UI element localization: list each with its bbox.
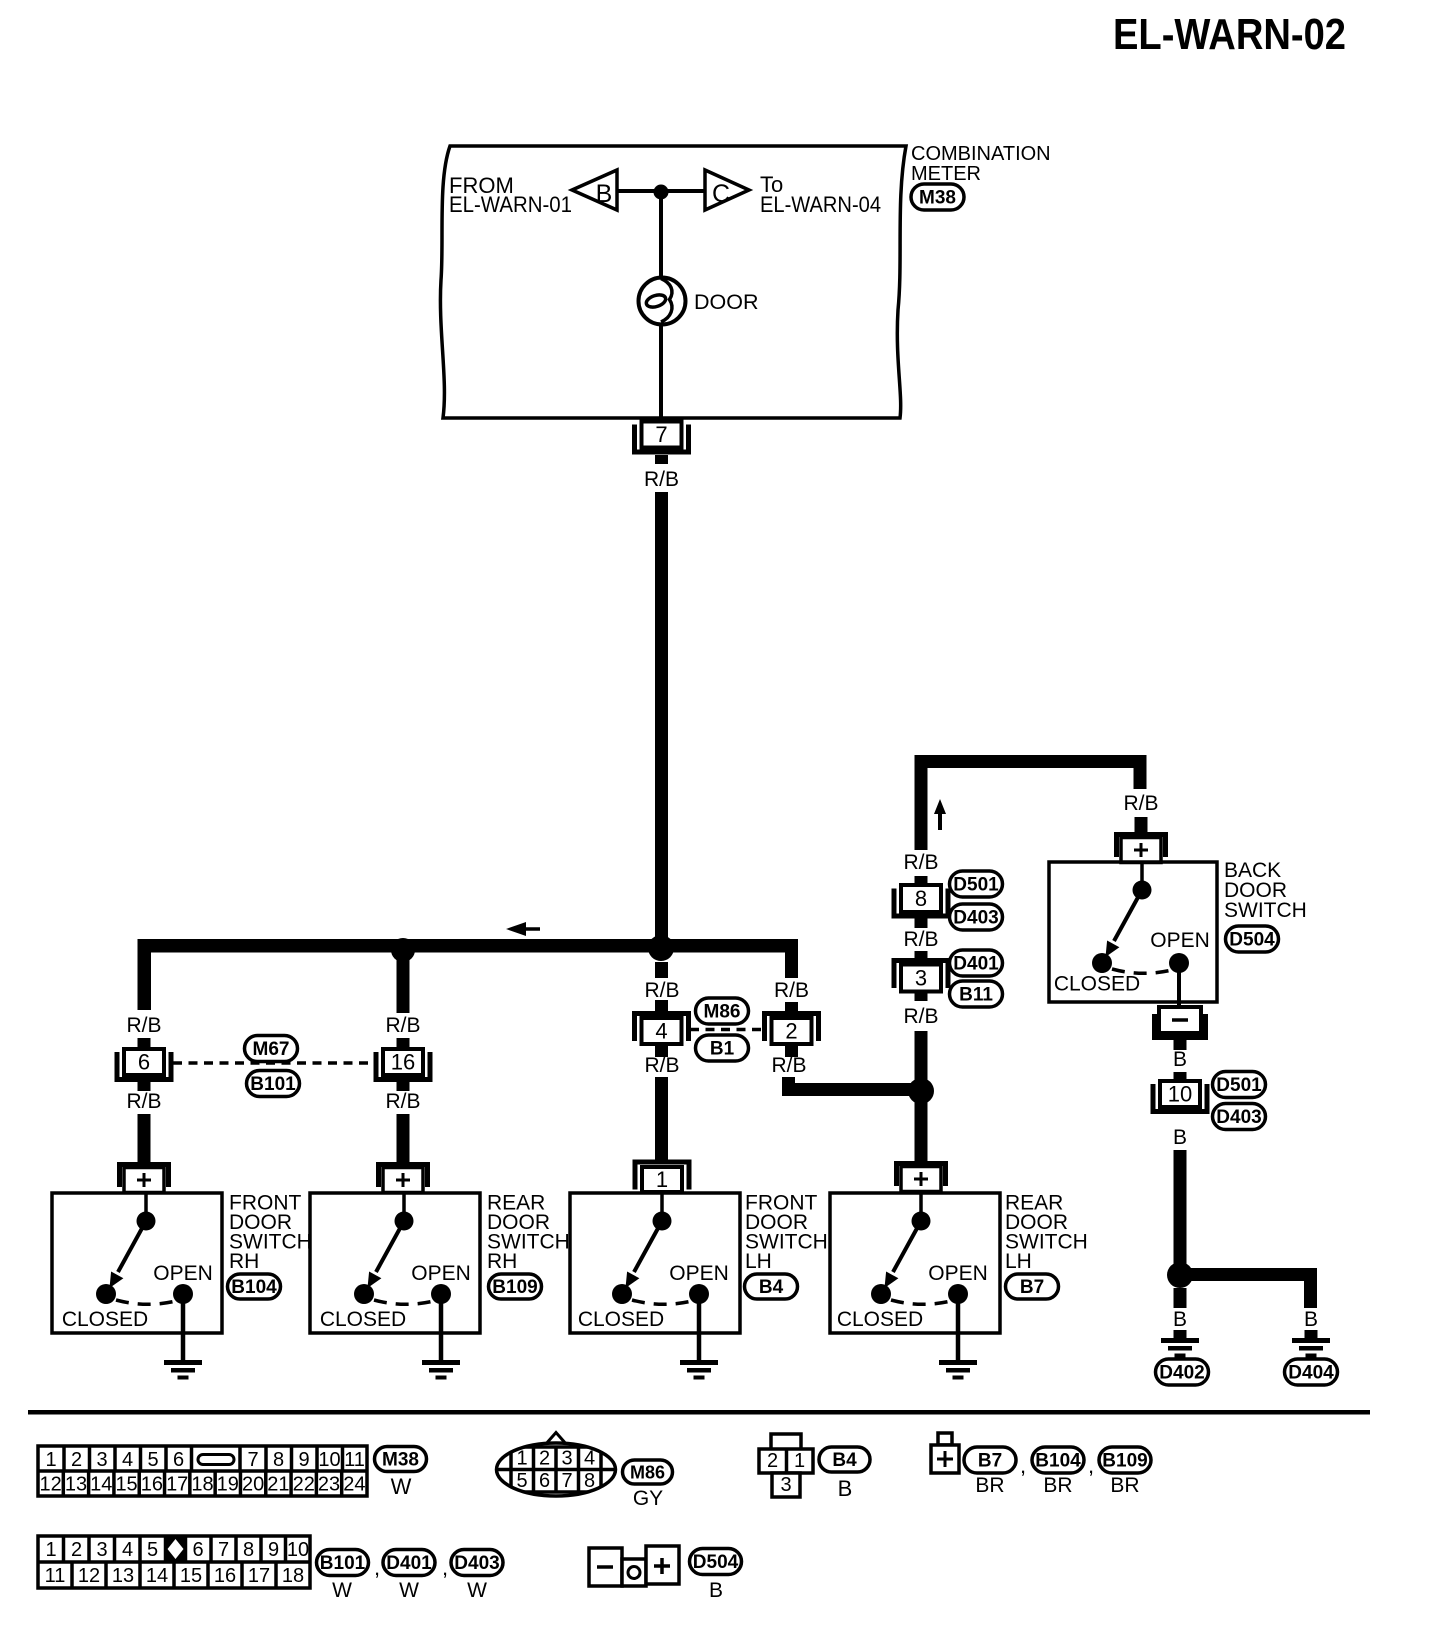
svg-text:7: 7 bbox=[655, 422, 667, 447]
svg-text:OPEN: OPEN bbox=[1150, 929, 1210, 952]
svg-text:10: 10 bbox=[318, 1449, 340, 1471]
svg-text:15: 15 bbox=[115, 1474, 137, 1496]
svg-text:B4: B4 bbox=[832, 1450, 857, 1471]
svg-text:21: 21 bbox=[267, 1474, 289, 1496]
svg-text:W: W bbox=[332, 1579, 352, 1602]
svg-text:11: 11 bbox=[344, 1449, 365, 1471]
svg-text:8: 8 bbox=[243, 1539, 254, 1561]
svg-text:17: 17 bbox=[248, 1565, 270, 1587]
switch contacts rear door switch LH bbox=[871, 1193, 968, 1304]
connector label D401 oval (face) bbox=[383, 1550, 435, 1576]
wire bus to connector 16 bbox=[397, 952, 410, 1013]
svg-text:R/B: R/B bbox=[1123, 792, 1158, 815]
connector label D504 oval (face) bbox=[690, 1549, 742, 1575]
wire stub above connector 4 bbox=[655, 1000, 668, 1012]
wire stub above connector 2 bbox=[785, 1002, 798, 1012]
svg-text:C: C bbox=[712, 180, 730, 208]
svg-text:RH: RH bbox=[487, 1250, 517, 1273]
svg-text:8: 8 bbox=[915, 886, 927, 911]
connector 4 (M86/B1) bbox=[632, 1011, 691, 1044]
svg-text:9: 9 bbox=[268, 1539, 279, 1561]
svg-text:CLOSED: CLOSED bbox=[1054, 973, 1140, 996]
svg-text:OPEN: OPEN bbox=[411, 1262, 471, 1285]
svg-text:6: 6 bbox=[173, 1449, 184, 1471]
wire junction to lamp bbox=[659, 192, 663, 278]
svg-text:CLOSED: CLOSED bbox=[578, 1308, 664, 1331]
connector label B101 oval bbox=[247, 1071, 300, 1097]
svg-text:16: 16 bbox=[141, 1474, 163, 1496]
bus direction arrow left bbox=[506, 922, 540, 936]
svg-text:17: 17 bbox=[166, 1474, 188, 1496]
connector label M38 oval bbox=[911, 184, 964, 210]
svg-text:R/B: R/B bbox=[903, 1005, 938, 1028]
svg-text:1: 1 bbox=[794, 1450, 805, 1472]
svg-text:20: 20 bbox=[242, 1474, 264, 1496]
svg-text:D404: D404 bbox=[1288, 1363, 1334, 1384]
svg-text:B11: B11 bbox=[959, 985, 993, 1006]
wire stub to left ground bbox=[1174, 1330, 1187, 1338]
svg-text:3: 3 bbox=[561, 1448, 572, 1470]
connector face B4 3-pin bbox=[759, 1434, 813, 1497]
wire connector 10 to ground junction bbox=[1174, 1150, 1187, 1275]
svg-text:5: 5 bbox=[147, 1449, 158, 1471]
wire B to C bbox=[617, 189, 705, 193]
svg-text:4: 4 bbox=[122, 1539, 133, 1561]
connector label B7 oval bbox=[1006, 1274, 1059, 1299]
lamp DOOR warning bulb bbox=[639, 278, 686, 325]
svg-text:23: 23 bbox=[318, 1474, 340, 1496]
svg-text:4: 4 bbox=[655, 1019, 667, 1044]
ground symbol (rear door switch RH) bbox=[422, 1360, 460, 1380]
svg-text:W: W bbox=[399, 1579, 419, 1602]
svg-text:METER: METER bbox=[911, 163, 981, 185]
junction node ground branch bbox=[1167, 1262, 1193, 1288]
svg-text:W: W bbox=[391, 1474, 412, 1499]
switch box rear door switch LH bbox=[830, 1193, 1000, 1333]
svg-text:LH: LH bbox=[1005, 1250, 1032, 1273]
connector label B109 oval (face) bbox=[1099, 1447, 1151, 1473]
ground symbol D402 bbox=[1161, 1338, 1199, 1358]
svg-text:SWITCH: SWITCH bbox=[1224, 899, 1307, 922]
key symbol for body connectors bbox=[931, 1433, 959, 1473]
connector 1 of front door switch LH bbox=[633, 1160, 692, 1193]
svg-text:16: 16 bbox=[391, 1050, 415, 1075]
svg-text:LH: LH bbox=[745, 1250, 772, 1273]
wire stub above connector 3 bbox=[915, 951, 928, 959]
svg-text:R/B: R/B bbox=[126, 1090, 161, 1113]
svg-text:1: 1 bbox=[45, 1449, 56, 1471]
svg-text:CLOSED: CLOSED bbox=[837, 1308, 923, 1331]
svg-text:16: 16 bbox=[214, 1565, 236, 1587]
connector arrow B (from EL-WARN-01) bbox=[572, 170, 617, 210]
svg-text:10: 10 bbox=[287, 1539, 309, 1561]
connector + of back door switch bbox=[1114, 832, 1168, 863]
svg-text:B104: B104 bbox=[1035, 1451, 1081, 1472]
svg-text:M38: M38 bbox=[919, 188, 956, 209]
connector + of rear door switch LH bbox=[894, 1161, 948, 1192]
wire stub to right ground bbox=[1305, 1330, 1318, 1338]
connector label D403 oval (face) bbox=[451, 1550, 503, 1576]
wire stub below connector 6 bbox=[138, 1082, 151, 1091]
svg-text:B101: B101 bbox=[320, 1553, 366, 1574]
wire open contact to ground (rear door switch LH) bbox=[956, 1294, 961, 1360]
wire open contact to ground (front door switch LH) bbox=[697, 1294, 702, 1360]
svg-text:2: 2 bbox=[767, 1450, 778, 1472]
svg-text:2: 2 bbox=[539, 1448, 550, 1470]
svg-text:18: 18 bbox=[282, 1565, 304, 1587]
ground symbol (front door switch LH) bbox=[680, 1360, 718, 1380]
svg-text:R/B: R/B bbox=[644, 979, 679, 1002]
switch contacts front door switch LH bbox=[612, 1193, 709, 1304]
connector label B4 oval (face) bbox=[819, 1447, 870, 1472]
svg-text:2: 2 bbox=[71, 1539, 82, 1561]
connector label D504 oval bbox=[1226, 926, 1279, 952]
svg-text:BR: BR bbox=[1043, 1474, 1072, 1497]
wire stub above connector 10 bbox=[1174, 1072, 1187, 1081]
svg-text:D501: D501 bbox=[1216, 1075, 1262, 1096]
svg-text:6: 6 bbox=[138, 1050, 150, 1075]
svg-text:R/B: R/B bbox=[903, 851, 938, 874]
svg-text:7: 7 bbox=[218, 1539, 229, 1561]
connector 8 (D501/D403) bbox=[892, 885, 951, 919]
svg-text:B7: B7 bbox=[1020, 1277, 1044, 1298]
junction node in meter bbox=[654, 185, 669, 200]
connector 6 (M67/B101) bbox=[115, 1049, 174, 1082]
svg-text:GY: GY bbox=[633, 1487, 663, 1510]
svg-text:2: 2 bbox=[785, 1019, 797, 1044]
connector 2 (M86/B1) bbox=[762, 1011, 821, 1044]
svg-text:4: 4 bbox=[584, 1448, 595, 1470]
label BACK DOOR SWITCH bbox=[1224, 859, 1307, 922]
connector label B1 oval bbox=[696, 1035, 749, 1061]
junction node rear LH / back door branch bbox=[908, 1078, 934, 1104]
connector label M86 oval (face) bbox=[623, 1460, 673, 1484]
wire hook up from connector 8 to back door switch bbox=[915, 755, 1147, 850]
switch contacts front door switch RH bbox=[96, 1193, 193, 1304]
svg-text:EL-WARN-02: EL-WARN-02 bbox=[1113, 10, 1346, 59]
svg-text:R/B: R/B bbox=[385, 1090, 420, 1113]
dashed connector link 4-2 bbox=[690, 1028, 762, 1032]
svg-text:,: , bbox=[1020, 1453, 1026, 1478]
wire stub below bus junction bbox=[655, 962, 668, 978]
svg-text:D403: D403 bbox=[454, 1553, 499, 1574]
svg-text:4: 4 bbox=[122, 1449, 133, 1471]
connector label B11 oval (conn 3) bbox=[950, 981, 1003, 1007]
svg-text:B7: B7 bbox=[978, 1451, 1002, 1472]
svg-text:1: 1 bbox=[656, 1167, 668, 1192]
connector + of rear door switch RH bbox=[376, 1162, 430, 1193]
svg-text:B: B bbox=[596, 180, 613, 208]
connector label D403 oval (conn 10) bbox=[1213, 1104, 1266, 1130]
svg-text:13: 13 bbox=[65, 1474, 87, 1496]
back door switch contacts bbox=[1092, 863, 1189, 973]
svg-text:14: 14 bbox=[90, 1474, 112, 1496]
wire open contact to ground (rear door switch RH) bbox=[439, 1294, 444, 1360]
svg-text:R/B: R/B bbox=[126, 1014, 161, 1037]
svg-text:B104: B104 bbox=[231, 1277, 277, 1298]
svg-text:22: 22 bbox=[293, 1474, 315, 1496]
svg-text:CLOSED: CLOSED bbox=[62, 1308, 148, 1331]
wire connector 4 to front door switch LH bbox=[655, 1077, 668, 1162]
svg-text:D403: D403 bbox=[953, 908, 998, 929]
wire main vertical R/B trunk bbox=[655, 492, 668, 952]
svg-text:W: W bbox=[467, 1579, 487, 1602]
connector label D501 oval (conn 10) bbox=[1213, 1072, 1266, 1098]
svg-text:RH: RH bbox=[229, 1250, 259, 1273]
svg-text:EL-WARN-04: EL-WARN-04 bbox=[760, 192, 881, 217]
wire connector 2 down and right to junction bbox=[782, 1077, 922, 1096]
svg-text:B101: B101 bbox=[250, 1074, 296, 1095]
svg-text:3: 3 bbox=[96, 1449, 107, 1471]
connector face D504 battery style bbox=[589, 1546, 679, 1586]
svg-text:,: , bbox=[374, 1555, 380, 1580]
svg-text:12: 12 bbox=[78, 1565, 100, 1587]
svg-text:B: B bbox=[1173, 1126, 1187, 1149]
svg-text:6: 6 bbox=[539, 1470, 550, 1492]
wire open contact to ground (front door switch RH) bbox=[181, 1294, 186, 1360]
svg-text:D501: D501 bbox=[953, 875, 999, 896]
svg-text:B4: B4 bbox=[759, 1277, 784, 1298]
ground symbol D404 bbox=[1292, 1338, 1330, 1358]
svg-text:24: 24 bbox=[343, 1474, 365, 1496]
connector 3 (D401/B11) bbox=[892, 958, 951, 992]
svg-text:R/B: R/B bbox=[903, 928, 938, 951]
label FRONT DOOR SWITCH LH bbox=[745, 1192, 828, 1274]
svg-text:R/B: R/B bbox=[774, 979, 809, 1002]
svg-text:1: 1 bbox=[516, 1448, 527, 1470]
wire bus corner down to connector 2 bbox=[785, 939, 798, 978]
svg-text:D401: D401 bbox=[386, 1553, 432, 1574]
label To EL-WARN-04 bbox=[760, 172, 881, 217]
wire stub below connector 2 bbox=[785, 1044, 798, 1057]
wire stub above connector 8 bbox=[915, 876, 928, 886]
svg-text:B: B bbox=[1173, 1308, 1187, 1331]
svg-text:9: 9 bbox=[298, 1449, 309, 1471]
wire stub below pin 7 bbox=[655, 455, 668, 464]
pin 7 connector of M38 bbox=[632, 422, 691, 455]
connector label B4 oval bbox=[745, 1274, 798, 1299]
wire horizontal bus bbox=[138, 939, 798, 953]
svg-text:M86: M86 bbox=[704, 1002, 741, 1023]
connector label B104 oval bbox=[228, 1274, 281, 1299]
connector label B101 oval (face) bbox=[317, 1550, 369, 1576]
svg-text:R/B: R/B bbox=[644, 468, 679, 491]
svg-text:14: 14 bbox=[146, 1565, 168, 1587]
svg-text:19: 19 bbox=[217, 1474, 239, 1496]
svg-text:B1: B1 bbox=[710, 1039, 735, 1060]
wire branch right to D404 ground bbox=[1180, 1268, 1317, 1308]
svg-text:D504: D504 bbox=[1229, 930, 1275, 951]
svg-text:OPEN: OPEN bbox=[928, 1262, 988, 1285]
svg-text:OPEN: OPEN bbox=[153, 1262, 213, 1285]
svg-text:8: 8 bbox=[273, 1449, 284, 1471]
svg-text:B: B bbox=[1304, 1308, 1318, 1331]
svg-text:6: 6 bbox=[192, 1539, 203, 1561]
label REAR DOOR SWITCH LH bbox=[1005, 1192, 1088, 1274]
ground label D404 oval bbox=[1285, 1359, 1338, 1385]
svg-text:BR: BR bbox=[1110, 1474, 1139, 1497]
svg-text:,: , bbox=[442, 1555, 448, 1580]
wire stub below connector 16 bbox=[397, 1082, 410, 1091]
wire stub below ground junction bbox=[1174, 1288, 1187, 1308]
wire stub below connector 8 bbox=[915, 918, 928, 928]
back door switch box bbox=[1049, 862, 1217, 1002]
svg-text:10: 10 bbox=[1168, 1082, 1192, 1107]
svg-text:B109: B109 bbox=[1102, 1451, 1147, 1472]
separator rule bbox=[28, 1410, 1370, 1415]
connector label D403 oval (conn 8) bbox=[950, 904, 1003, 930]
svg-text:M38: M38 bbox=[382, 1450, 419, 1471]
wire lamp to box edge bbox=[659, 324, 663, 419]
connector - of back door switch bbox=[1152, 1007, 1208, 1040]
svg-text:5: 5 bbox=[147, 1539, 158, 1561]
junction node bus-main (trunk) bbox=[648, 935, 674, 961]
connector face B101 18-pin bbox=[38, 1536, 310, 1588]
wire stub above connector 16 bbox=[397, 1038, 410, 1049]
svg-text:B: B bbox=[1173, 1048, 1187, 1071]
ground symbol (rear door switch LH) bbox=[939, 1360, 977, 1380]
svg-text:3: 3 bbox=[780, 1474, 791, 1496]
connector 16 (M67/B101) bbox=[374, 1049, 433, 1082]
junction node bus-left (to rear door switch RH) bbox=[391, 938, 415, 962]
svg-text:1: 1 bbox=[45, 1539, 56, 1561]
connector arrow C (to EL-WARN-04) bbox=[705, 170, 749, 210]
connector 10 (D501/D403) bbox=[1151, 1081, 1210, 1114]
svg-text:M86: M86 bbox=[630, 1463, 665, 1483]
connector face M86 8-pin oval bbox=[497, 1433, 616, 1497]
svg-text:D402: D402 bbox=[1159, 1363, 1204, 1384]
svg-text:18: 18 bbox=[191, 1474, 213, 1496]
svg-text:COMBINATION: COMBINATION bbox=[911, 143, 1051, 165]
connector label M67 oval bbox=[245, 1036, 298, 1062]
svg-text:D504: D504 bbox=[693, 1552, 739, 1573]
svg-text:OPEN: OPEN bbox=[669, 1262, 729, 1285]
wire open contact to minus pin bbox=[1177, 965, 1181, 1008]
svg-text:D403: D403 bbox=[1216, 1107, 1261, 1128]
label COMBINATION METER bbox=[911, 143, 1051, 185]
svg-text:12: 12 bbox=[40, 1474, 62, 1496]
svg-text:8: 8 bbox=[584, 1470, 595, 1492]
svg-text:D401: D401 bbox=[953, 954, 999, 975]
connector face M38 24-pin bbox=[38, 1446, 367, 1496]
svg-text:7: 7 bbox=[561, 1470, 572, 1492]
svg-text:DOOR: DOOR bbox=[694, 290, 759, 314]
colour labels BR BR BR bbox=[975, 1474, 1139, 1497]
switch box rear door switch RH bbox=[310, 1193, 480, 1333]
label REAR DOOR SWITCH RH bbox=[487, 1192, 570, 1274]
wire stub below connector 4 bbox=[655, 1044, 668, 1057]
connector label B7 oval (face) bbox=[964, 1447, 1016, 1473]
svg-text:B: B bbox=[709, 1579, 723, 1602]
ground symbol (front door switch RH) bbox=[164, 1360, 202, 1380]
switch contacts rear door switch RH bbox=[354, 1193, 451, 1304]
direction arrow up bbox=[934, 799, 946, 830]
combination meter box outline bbox=[440, 146, 906, 418]
wire connector 6 to front door switch RH bbox=[138, 1114, 151, 1162]
svg-text:B109: B109 bbox=[492, 1277, 537, 1298]
connector label B104 oval (face) bbox=[1032, 1447, 1084, 1473]
connector label B109 oval bbox=[489, 1274, 542, 1299]
svg-text:R/B: R/B bbox=[644, 1054, 679, 1077]
svg-text:CLOSED: CLOSED bbox=[320, 1308, 406, 1331]
wire connector 3 to rear door switch LH bbox=[915, 1031, 928, 1161]
svg-text:7: 7 bbox=[247, 1449, 258, 1471]
label FRONT DOOR SWITCH RH bbox=[229, 1192, 312, 1274]
connector label M86 oval bbox=[696, 998, 749, 1024]
svg-text:B: B bbox=[838, 1476, 853, 1501]
switch box front door switch LH bbox=[570, 1193, 740, 1333]
wire connector 16 to rear door switch RH bbox=[397, 1114, 410, 1162]
colour labels W W W bbox=[332, 1579, 487, 1602]
ground label D402 oval bbox=[1156, 1359, 1209, 1385]
svg-text:M67: M67 bbox=[253, 1039, 290, 1060]
svg-text:2: 2 bbox=[71, 1449, 82, 1471]
svg-text:3: 3 bbox=[96, 1539, 107, 1561]
connector + of front door switch RH bbox=[117, 1162, 171, 1193]
svg-text:11: 11 bbox=[45, 1565, 66, 1587]
svg-text:13: 13 bbox=[112, 1565, 134, 1587]
wire bus corner down to connector 6 bbox=[138, 939, 152, 1010]
switch box front door switch RH bbox=[52, 1193, 222, 1333]
svg-text:,: , bbox=[1088, 1453, 1094, 1478]
svg-text:3: 3 bbox=[915, 966, 927, 991]
connector label M38 oval (face) bbox=[375, 1447, 427, 1472]
svg-text:15: 15 bbox=[180, 1565, 202, 1587]
connector label D501 oval (conn 8) bbox=[950, 871, 1003, 897]
svg-text:5: 5 bbox=[516, 1470, 527, 1492]
dashed connector link 6-16 bbox=[173, 1061, 375, 1065]
svg-text:R/B: R/B bbox=[771, 1054, 806, 1077]
svg-text:R/B: R/B bbox=[385, 1014, 420, 1037]
svg-text:BR: BR bbox=[975, 1474, 1004, 1497]
connector label D401 oval (conn 3) bbox=[950, 950, 1003, 976]
wire stub below minus pin bbox=[1174, 1040, 1187, 1050]
svg-text:EL-WARN-01: EL-WARN-01 bbox=[449, 192, 572, 217]
wire stub above back door switch connector bbox=[1135, 817, 1148, 833]
label FROM EL-WARN-01 bbox=[449, 173, 572, 217]
wire stub above connector 6 bbox=[138, 1038, 151, 1049]
wire stub below connector 3 bbox=[915, 992, 928, 1001]
